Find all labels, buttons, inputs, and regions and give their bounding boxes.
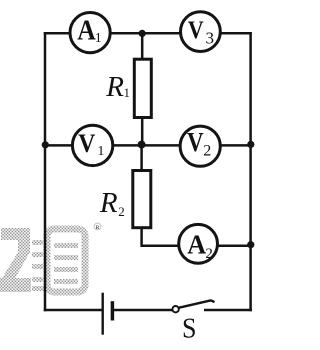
svg-text:S: S	[182, 313, 197, 345]
svg-text:R: R	[99, 187, 118, 219]
wire: right vertical	[249, 33, 252, 310]
watermark logo block glyph	[47, 229, 85, 292]
wire: left vertical	[44, 33, 47, 310]
ammeter A2 circle	[179, 224, 218, 263]
wire: bottom left segment	[45, 309, 101, 312]
svg-text:R: R	[96, 225, 100, 231]
svg-text:1: 1	[95, 30, 102, 45]
battery: short thick plate	[111, 301, 115, 320]
voltmeter V1 circle	[72, 125, 112, 165]
wire: R1 branch bottom	[141, 119, 144, 146]
svg-text:R: R	[105, 71, 124, 103]
watermark logo small dashes	[32, 240, 44, 291]
junction node: A2 right	[247, 241, 254, 248]
svg-text:A: A	[187, 228, 206, 259]
wire: middle left segment	[45, 144, 74, 147]
voltmeter V2 circle	[180, 126, 220, 166]
svg-text:2: 2	[203, 143, 211, 160]
wire: R2 bottom to A2	[142, 229, 179, 246]
voltmeter V3 circle	[181, 12, 221, 52]
wire: middle right segment	[220, 144, 251, 147]
svg-text:2: 2	[118, 204, 125, 219]
svg-text:1: 1	[124, 86, 130, 100]
switch S: lever	[179, 300, 214, 307]
wire: top left segment	[45, 32, 70, 35]
junction node: middle left	[42, 141, 49, 148]
svg-text:3: 3	[206, 29, 215, 48]
wire: top right segment	[220, 32, 251, 35]
svg-text:V: V	[78, 129, 95, 158]
junction node: top center	[139, 30, 146, 37]
svg-text:2: 2	[205, 246, 213, 262]
svg-text:1: 1	[97, 144, 104, 159]
wire: bottom right segment	[205, 309, 250, 312]
wire: middle center segment	[112, 144, 180, 147]
svg-text:A: A	[77, 16, 96, 47]
wire: top middle segment	[110, 32, 181, 35]
svg-text:V: V	[188, 17, 204, 44]
svg-text:V: V	[187, 127, 204, 157]
switch S: pivot circle	[172, 306, 178, 312]
junction node: middle center	[138, 141, 146, 149]
wire: R1 branch top	[141, 33, 144, 58]
junction node: middle right	[247, 141, 254, 148]
watermark registered trademark symbol	[94, 223, 101, 231]
ammeter A1 circle	[70, 12, 110, 52]
resistor R2 box	[133, 171, 151, 228]
wire: R2 branch top	[140, 145, 143, 169]
wire: A2 to right vertical	[218, 245, 251, 248]
watermark logo "2" glyph (halftone gray)	[0, 228, 31, 292]
battery: long plate	[101, 293, 103, 335]
resistor R1 box	[134, 59, 151, 117]
wire: battery right lead	[114, 309, 173, 312]
